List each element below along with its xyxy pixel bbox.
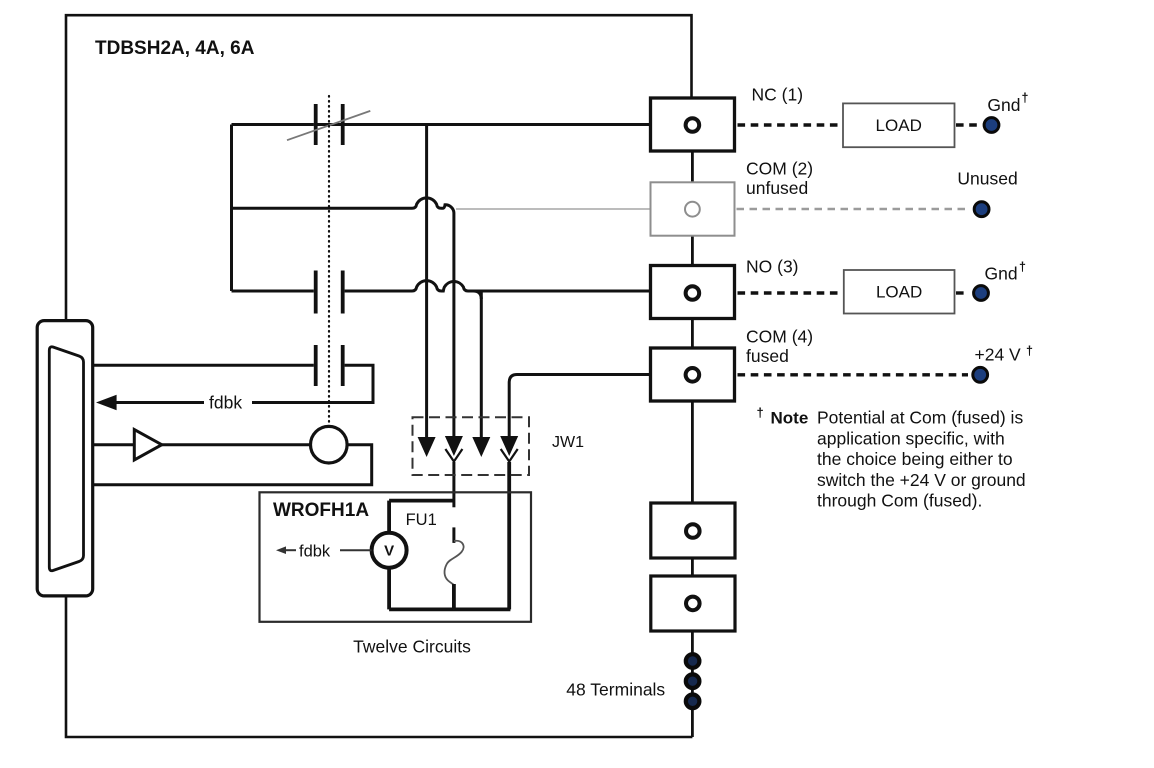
svg-text:†: † (1022, 91, 1029, 105)
svg-text:switch the +24 V or ground: switch the +24 V or ground (817, 470, 1026, 490)
svg-text:Note: Note (771, 409, 809, 428)
svg-text:NC (1): NC (1) (752, 85, 804, 105)
svg-text:LOAD: LOAD (876, 116, 922, 135)
svg-text:†: † (757, 405, 764, 420)
svg-text:fused: fused (746, 346, 789, 366)
svg-text:WROFH1A: WROFH1A (273, 500, 369, 521)
svg-text:application specific, with: application specific, with (817, 428, 1005, 448)
svg-text:NO (3): NO (3) (746, 257, 799, 277)
svg-text:Unused: Unused (957, 169, 1017, 189)
svg-text:+24 V: +24 V (975, 345, 1022, 365)
svg-text:48 Terminals: 48 Terminals (566, 680, 665, 700)
svg-text:FU1: FU1 (406, 511, 437, 529)
svg-text:COM (4): COM (4) (746, 326, 813, 346)
svg-text:fdbk: fdbk (299, 543, 331, 561)
svg-text:Gnd: Gnd (987, 95, 1020, 115)
svg-text:TDBSH2A, 4A, 6A: TDBSH2A, 4A, 6A (95, 38, 255, 59)
svg-text:†: † (1019, 260, 1026, 274)
svg-text:†: † (1026, 344, 1033, 358)
svg-text:COM (2): COM (2) (746, 159, 813, 179)
svg-text:the choice being either to: the choice being either to (817, 449, 1013, 469)
svg-text:Gnd: Gnd (985, 264, 1018, 284)
svg-text:Twelve Circuits: Twelve Circuits (353, 637, 471, 657)
svg-text:JW1: JW1 (552, 434, 584, 451)
svg-text:fdbk: fdbk (209, 393, 242, 413)
svg-text:LOAD: LOAD (876, 283, 922, 302)
svg-text:through Com (fused).: through Com (fused). (817, 491, 982, 511)
svg-text:V: V (384, 543, 394, 560)
svg-text:Potential at Com (fused) is: Potential at Com (fused) is (817, 408, 1023, 428)
svg-text:unfused: unfused (746, 178, 808, 198)
